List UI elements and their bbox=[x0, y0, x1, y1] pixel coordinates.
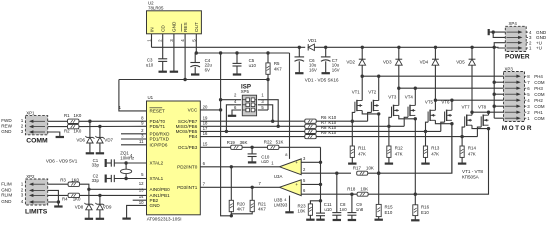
stub PB2 pin 14 bbox=[133, 199, 147, 201]
op-amp U3B LM393 bbox=[274, 180, 301, 208]
svg-text:GND: GND bbox=[1, 129, 12, 134]
svg-text:FLIM: FLIM bbox=[1, 181, 12, 186]
wire +5V riser to U1 VCC, ISP and comparator pull-ups bbox=[200, 53, 233, 218]
svg-text:10MHz: 10MHz bbox=[120, 155, 134, 160]
ground for XP4 bbox=[488, 29, 490, 35]
ground for C5 bbox=[233, 73, 241, 75]
svg-text:3: 3 bbox=[21, 193, 24, 198]
wire U3 V+ pin 8 riser bbox=[285, 53, 289, 159]
svg-text:4K7: 4K7 bbox=[258, 207, 266, 212]
transistor VT3 bbox=[388, 95, 399, 118]
capacitor C8 1n0 bbox=[332, 173, 347, 219]
wire ISP pin2 to +5V bbox=[221, 99, 242, 101]
wire Vref line from R19 to Vref column bbox=[242, 146, 320, 149]
svg-text:IN: IN bbox=[149, 27, 154, 32]
svg-text:6V: 6V bbox=[205, 67, 210, 72]
svg-text:R15: R15 bbox=[385, 204, 394, 209]
svg-text:1n8: 1n8 bbox=[356, 207, 364, 212]
op-amp U3A LM393 bbox=[274, 159, 301, 179]
diode VD4 flyback bbox=[420, 47, 439, 100]
svg-text:XP1: XP1 bbox=[26, 110, 35, 115]
svg-text:47K: 47K bbox=[431, 151, 439, 156]
svg-text:VD6 - VD9 5V1: VD6 - VD9 5V1 bbox=[46, 159, 78, 164]
transistor VT1 bbox=[352, 90, 363, 113]
ground for R14 bbox=[458, 163, 466, 165]
svg-text:COM: COM bbox=[534, 92, 545, 97]
zener diode VD6 bbox=[76, 121, 94, 153]
svg-text:U1: U1 bbox=[148, 95, 154, 100]
svg-text:47K: 47K bbox=[468, 151, 476, 156]
svg-text:u10: u10 bbox=[146, 63, 154, 68]
svg-text:+: + bbox=[295, 182, 298, 187]
wire ISP pin5 to RESET net bbox=[258, 109, 268, 111]
wire ISP pin6 to ground bbox=[232, 110, 241, 115]
svg-text:VT7: VT7 bbox=[462, 104, 471, 109]
svg-text:u10: u10 bbox=[261, 159, 269, 164]
svg-text:XP3: XP3 bbox=[505, 67, 514, 72]
wire pair2 sources down to sense resistor R16 bbox=[414, 119, 417, 196]
ground for VD8 bbox=[85, 218, 93, 220]
svg-text:VT8: VT8 bbox=[478, 104, 487, 109]
svg-text:VD6: VD6 bbox=[76, 137, 85, 142]
capacitor C9 1n8 bbox=[347, 194, 363, 219]
svg-text:GND: GND bbox=[1, 199, 12, 204]
svg-text:1K0: 1K0 bbox=[74, 129, 82, 134]
resistor R1 1K0 FWD input bbox=[48, 113, 147, 123]
svg-text:u10: u10 bbox=[249, 63, 257, 68]
svg-text:R5: R5 bbox=[274, 61, 280, 66]
svg-text:E10: E10 bbox=[421, 210, 429, 215]
capacitor C7 10u 16V bbox=[321, 47, 340, 72]
ground for C1 bbox=[105, 159, 107, 167]
ground for VD7 bbox=[96, 152, 104, 154]
svg-text:4K7: 4K7 bbox=[274, 67, 282, 72]
wire COM pins to +U bbox=[493, 47, 504, 118]
svg-text:R4: R4 bbox=[62, 197, 68, 202]
capacitor C6 10u 16V bbox=[295, 47, 317, 72]
capacitor C2 33p bbox=[92, 173, 115, 183]
transistor VT7 bbox=[462, 104, 473, 127]
ground for XP1 bbox=[56, 136, 64, 138]
ground for VD9 bbox=[96, 218, 104, 220]
U1 pin numbers bbox=[119, 104, 208, 205]
svg-text:R21: R21 bbox=[258, 201, 267, 206]
diode VD2 flyback bbox=[346, 47, 365, 76]
svg-text:VT5: VT5 bbox=[425, 100, 434, 105]
svg-text:R16: R16 bbox=[421, 204, 430, 209]
svg-text:+: + bbox=[295, 160, 298, 165]
svg-text:PD5/T1: PD5/T1 bbox=[150, 124, 166, 129]
svg-text:AT90S2313-10SI: AT90S2313-10SI bbox=[147, 216, 182, 221]
resistor R14 47K gate pulldown bbox=[460, 137, 477, 164]
diode VD5 flyback bbox=[456, 47, 475, 112]
svg-text:47K: 47K bbox=[358, 151, 366, 156]
svg-text:E10: E10 bbox=[385, 210, 393, 215]
svg-text:XP5: XP5 bbox=[241, 89, 250, 94]
resistor R3 1K0 FLIM input bbox=[48, 177, 147, 191]
svg-text:XTAL2: XTAL2 bbox=[150, 161, 164, 166]
svg-text:1K0: 1K0 bbox=[73, 197, 81, 202]
svg-text:FWD: FWD bbox=[1, 118, 12, 123]
svg-text:VD5: VD5 bbox=[456, 60, 465, 65]
svg-text:VD3: VD3 bbox=[383, 60, 392, 65]
resistor R20 4K7 pull-up on INT0 bbox=[229, 167, 245, 216]
resistor R15 E10 current sense bbox=[376, 204, 393, 219]
wire pair4 sources to minus-B line bbox=[415, 129, 488, 195]
svg-text:36K: 36K bbox=[240, 140, 248, 145]
resistor R23 10K from Vref to ground bbox=[298, 201, 321, 220]
resistor R8 K10 in series with gate row 3 bbox=[305, 125, 337, 134]
resistor R21 4K7 pull-up on INT1 bbox=[231, 187, 266, 216]
ground for C11 bbox=[316, 219, 324, 221]
ground for C9 bbox=[348, 219, 356, 221]
wire drains of VT3,VT4 to phase bus bbox=[397, 87, 503, 106]
svg-text:R9: R9 bbox=[321, 130, 327, 135]
svg-text:XTAL1: XTAL1 bbox=[150, 176, 164, 181]
svg-text:R11: R11 bbox=[358, 146, 366, 151]
ground for C2 bbox=[105, 175, 107, 183]
svg-text:COMM: COMM bbox=[26, 138, 48, 145]
wire U3A output to U1 INT0 bbox=[200, 161, 279, 169]
ground for R15 bbox=[375, 219, 383, 221]
svg-text:XP2: XP2 bbox=[26, 174, 35, 179]
svg-text:POWER: POWER bbox=[505, 53, 530, 60]
svg-text:COM: COM bbox=[534, 80, 545, 85]
ground for C4 bbox=[191, 73, 199, 75]
svg-text:u10: u10 bbox=[324, 207, 332, 212]
zener diode VD7 bbox=[95, 126, 113, 152]
svg-text:R18: R18 bbox=[347, 187, 356, 192]
label VT1 - VT8 type bbox=[462, 169, 483, 180]
ground for C6 bbox=[295, 72, 303, 74]
svg-text:12: 12 bbox=[139, 181, 144, 186]
svg-text:VD8: VD8 bbox=[75, 205, 84, 210]
svg-text:RESET: RESET bbox=[150, 109, 166, 114]
capacitor C11 u10 on Vref column bbox=[316, 202, 332, 220]
svg-text:47K: 47K bbox=[395, 151, 403, 156]
svg-text:R2: R2 bbox=[64, 129, 70, 134]
capacitor C5 u10 bbox=[233, 53, 257, 74]
svg-text:RES: RES bbox=[183, 22, 188, 32]
wire U3 GND pin 4 bbox=[284, 196, 289, 212]
svg-text:K10: K10 bbox=[328, 130, 336, 135]
ISP programming header XP5 bbox=[234, 84, 264, 116]
svg-text:VT1 - VT8: VT1 - VT8 bbox=[462, 169, 483, 174]
svg-text:OUT: OUT bbox=[194, 22, 199, 32]
svg-text:VD9: VD9 bbox=[103, 205, 112, 210]
ground for U3 bbox=[285, 211, 293, 213]
svg-text:1K0: 1K0 bbox=[74, 113, 82, 118]
svg-text:LIMITS: LIMITS bbox=[25, 208, 48, 215]
svg-text:ICP/PD6: ICP/PD6 bbox=[150, 142, 168, 147]
svg-text:R20: R20 bbox=[237, 201, 246, 206]
transistor VT8 bbox=[478, 104, 489, 127]
svg-text:11: 11 bbox=[139, 139, 144, 144]
wire +5V rail from U2 OUT bbox=[195, 51, 290, 54]
svg-text:R19: R19 bbox=[227, 140, 236, 145]
wire XTAL1 to C2 bbox=[114, 177, 146, 180]
wire U3B output to U1 INT1 bbox=[200, 181, 279, 189]
wire pair3 sources to minus-A line bbox=[451, 124, 453, 174]
svg-text:PB4: PB4 bbox=[189, 134, 198, 139]
svg-text:AIN0/PB0: AIN0/PB0 bbox=[150, 187, 171, 192]
svg-text:VD2: VD2 bbox=[346, 60, 355, 65]
connector XP1 COMM bbox=[1, 110, 48, 144]
resistor R7 K10 in series with gate row 2 bbox=[305, 120, 337, 128]
resistor R11 47K gate pulldown bbox=[350, 121, 366, 163]
svg-text:R13: R13 bbox=[431, 146, 440, 151]
svg-text:3: 3 bbox=[21, 129, 24, 134]
wire RESET net from U2 RES pin to U1 and ISP bbox=[119, 78, 270, 111]
svg-text:VCC: VCC bbox=[188, 108, 198, 113]
wire ISP pin1 MISO to bus row2 bbox=[258, 100, 280, 128]
wire XP2 GND pins to ground bbox=[48, 190, 60, 206]
svg-text:COM: COM bbox=[534, 104, 545, 109]
svg-text:VT2: VT2 bbox=[368, 90, 377, 95]
svg-text:+U: +U bbox=[536, 46, 542, 51]
svg-text:+U: +U bbox=[536, 40, 542, 45]
svg-text:2: 2 bbox=[21, 124, 24, 129]
svg-text:R17: R17 bbox=[353, 166, 362, 171]
resistor R22 51K to +5V bbox=[264, 139, 284, 149]
capacitor C10 u10 on Vref bbox=[248, 147, 270, 164]
connector XP3 MOTOR bbox=[502, 67, 545, 132]
ground for XP2 bbox=[54, 205, 62, 207]
connector XP4 POWER bbox=[505, 21, 547, 60]
wire sources of VT3,VT4 bbox=[399, 115, 417, 120]
transistor VT5 bbox=[425, 100, 436, 123]
svg-text:GND: GND bbox=[172, 21, 177, 32]
transistor VT2 bbox=[368, 90, 379, 113]
wire gates of VT1,VT2 to row 1 bbox=[351, 112, 372, 123]
crystal ZQ1 10MHz bbox=[120, 151, 134, 179]
capacitor C4 22u 6V bbox=[190, 53, 212, 74]
svg-text:1K0: 1K0 bbox=[71, 177, 79, 182]
svg-text:GND: GND bbox=[536, 30, 547, 35]
svg-text:4K7: 4K7 bbox=[237, 207, 245, 212]
wire Vref column to comparator + inputs bbox=[301, 147, 322, 213]
svg-text:XP4: XP4 bbox=[509, 21, 518, 26]
svg-text:10: 10 bbox=[139, 200, 144, 205]
svg-text:51K: 51K bbox=[276, 139, 284, 144]
svg-text:GND: GND bbox=[150, 203, 161, 208]
svg-text:33p: 33p bbox=[92, 163, 100, 168]
wire gates of VT5,VT6 to row 3 bbox=[424, 122, 445, 133]
svg-text:PH2: PH2 bbox=[534, 98, 543, 103]
resistor R5 4K7 reset pull-up bbox=[266, 53, 282, 80]
wire XP1 GND to ground bbox=[48, 132, 60, 137]
U2 pin stubs bbox=[152, 34, 197, 80]
wire drains of VT7,VT8 to phase bus bbox=[470, 111, 503, 116]
wire XP4 +U pins to +U rail bbox=[493, 43, 506, 49]
ground for C10 bbox=[248, 161, 256, 163]
svg-text:PH1: PH1 bbox=[534, 110, 543, 115]
wire drains of VT5,VT6 to phase bus bbox=[434, 99, 504, 111]
wire ISP pin3 SCK to bus row1 bbox=[258, 105, 275, 123]
svg-text:RLIM: RLIM bbox=[1, 193, 12, 198]
svg-text:COM: COM bbox=[534, 116, 545, 121]
svg-text:10K: 10K bbox=[366, 166, 374, 171]
wire minus-A line with R17 bbox=[301, 124, 452, 176]
wire sources of VT1,VT2 bbox=[362, 111, 380, 116]
svg-text:33p: 33p bbox=[92, 178, 100, 183]
transistor VT6 bbox=[441, 100, 452, 123]
ground for R11 bbox=[348, 163, 356, 165]
svg-text:10K: 10K bbox=[298, 209, 306, 214]
svg-text:REW: REW bbox=[1, 124, 12, 129]
svg-text:U3A: U3A bbox=[274, 174, 283, 179]
ground for R23 bbox=[306, 219, 314, 221]
connector XP2 LIMITS bbox=[1, 174, 48, 216]
svg-text:R14: R14 bbox=[468, 146, 477, 151]
svg-text:16V: 16V bbox=[332, 67, 340, 72]
svg-text:CD: CD bbox=[161, 25, 166, 32]
svg-text:10K: 10K bbox=[360, 187, 368, 192]
svg-text:R12: R12 bbox=[395, 146, 404, 151]
svg-text:VT3: VT3 bbox=[388, 95, 397, 100]
ground for C3 bbox=[159, 71, 167, 73]
wire ISP pin4 MOSI to bus row3 bbox=[225, 105, 241, 133]
svg-text:PH3: PH3 bbox=[534, 86, 543, 91]
zener diode VD9 bbox=[95, 195, 112, 218]
svg-text:КП505А: КП505А bbox=[462, 175, 480, 180]
wire XTAL2 to C1 bbox=[114, 161, 146, 164]
svg-text:4: 4 bbox=[21, 199, 24, 204]
voltage regulator U2 78LR05 bbox=[147, 1, 202, 42]
svg-text:1n0: 1n0 bbox=[339, 207, 347, 212]
wire sources of VT5,VT6 bbox=[435, 120, 453, 125]
svg-text:R3: R3 bbox=[60, 177, 66, 182]
resistor R2 1K0 REW input bbox=[48, 124, 147, 133]
wire gates of VT3,VT4 to row 2 bbox=[387, 117, 408, 128]
svg-text:VD4: VD4 bbox=[420, 60, 429, 65]
resistor R9 K10 in series with gate row 4 bbox=[305, 130, 337, 139]
svg-text:VD1 - VD5 SK16: VD1 - VD5 SK16 bbox=[305, 78, 339, 83]
transistor VT4 bbox=[405, 95, 416, 118]
ground for R12 bbox=[385, 163, 393, 165]
svg-text:20: 20 bbox=[203, 104, 208, 109]
ground for C8 bbox=[333, 219, 341, 221]
resistor R19 36K from OC1/PB3 bbox=[200, 140, 247, 149]
ground for R13 bbox=[421, 163, 429, 165]
wire gates of VT7,VT8 to row 4 bbox=[460, 127, 481, 138]
svg-text:1: 1 bbox=[21, 181, 24, 186]
wire XP4 GND pins to chassis ground bbox=[489, 30, 506, 37]
svg-text:LM393: LM393 bbox=[274, 203, 288, 208]
resistor R16 E10 current sense bbox=[413, 194, 430, 220]
wire +U rail from U2 IN to power connector bbox=[152, 46, 495, 49]
capacitor C1 33p bbox=[92, 158, 115, 168]
svg-text:GND: GND bbox=[536, 35, 547, 40]
resistor R13 47K gate pulldown bbox=[423, 131, 440, 163]
unconnected stubs PD0 PD1 ICP bbox=[121, 134, 147, 145]
wire U1 GND pin 10 to ground bbox=[127, 205, 147, 218]
svg-text:VD7: VD7 bbox=[104, 137, 113, 142]
ground for ISP bbox=[228, 115, 236, 117]
microcontroller U1 AT90S2313 bbox=[147, 95, 201, 222]
wire pair1 sources down to sense resistor R15 bbox=[377, 114, 380, 204]
ground for U1 bbox=[122, 218, 130, 220]
svg-text:15: 15 bbox=[203, 142, 208, 147]
ground for C7 bbox=[322, 72, 330, 74]
ground for U2 GND pin bbox=[170, 71, 178, 73]
wire drains of VT1,VT2 to phase bus bbox=[361, 75, 504, 101]
svg-text:78LR05: 78LR05 bbox=[148, 6, 164, 11]
capacitor C3 u10 on U2 CD pin bbox=[146, 58, 167, 72]
svg-text:VT4: VT4 bbox=[405, 95, 414, 100]
svg-text:VD1: VD1 bbox=[308, 38, 317, 43]
diode VD1 series in +U rail bbox=[308, 38, 317, 51]
resistor R6 K10 in series with gate row 1 bbox=[305, 115, 337, 123]
svg-text:16V: 16V bbox=[309, 67, 317, 72]
svg-text:R1: R1 bbox=[64, 113, 70, 118]
svg-text:R22: R22 bbox=[264, 139, 273, 144]
resistor R12 47K gate pulldown bbox=[387, 126, 404, 163]
wire minus-B line with R18 bbox=[301, 187, 415, 197]
wire gate bus rows from U1 PB7-PB4 bbox=[200, 121, 477, 136]
svg-text:13: 13 bbox=[139, 188, 144, 193]
svg-text:14: 14 bbox=[139, 194, 144, 199]
ground for R16 bbox=[411, 219, 419, 221]
svg-text:PD2/INT0: PD2/INT0 bbox=[177, 164, 198, 169]
wire sources of VT7,VT8 bbox=[472, 125, 490, 130]
zener diode VD8 bbox=[75, 189, 94, 218]
svg-text:OC1/PB3: OC1/PB3 bbox=[178, 145, 198, 150]
svg-text:MOTOR: MOTOR bbox=[502, 125, 533, 132]
diode VD3 flyback bbox=[383, 47, 402, 88]
resistor R4 1K0 RLIM input bbox=[48, 193, 147, 201]
ground for VD6 bbox=[86, 152, 94, 154]
svg-text:PD1/TXD: PD1/TXD bbox=[150, 137, 170, 142]
svg-text:VT1: VT1 bbox=[352, 90, 361, 95]
svg-text:PD3/INT1: PD3/INT1 bbox=[177, 185, 198, 190]
svg-text:PH4: PH4 bbox=[534, 74, 543, 79]
svg-text:1: 1 bbox=[21, 118, 24, 123]
